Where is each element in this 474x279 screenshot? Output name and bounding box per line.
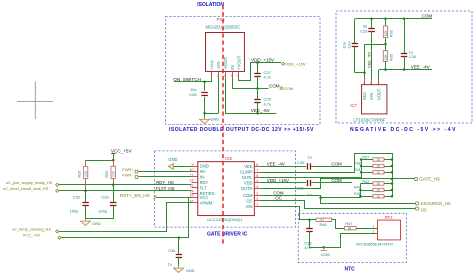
svg-text:R35: R35 (390, 54, 394, 61)
svg-text:uC_temp_sensing_HS: uC_temp_sensing_HS (12, 226, 51, 231)
ground GND under C34 (178, 257, 180, 267)
svg-text:4: 4 (256, 185, 258, 189)
svg-text:VDD: VDD (244, 181, 253, 186)
wire FWR- to IN- (139, 176, 192, 178)
svg-text:-VIN: -VIN (216, 61, 221, 69)
svg-text:R38: R38 (354, 162, 361, 166)
resistor R38 (361, 166, 373, 168)
svg-text:100p: 100p (98, 209, 108, 214)
wire temp sensing to APWM (59, 203, 192, 232)
svg-text:R46: R46 (320, 222, 327, 227)
resistor R41 (361, 172, 373, 174)
junction VDD / C27 (256, 61, 259, 64)
junction C34 on VCC wire (178, 237, 181, 240)
svg-text:VEE_-4V: VEE_-4V (267, 161, 285, 166)
svg-text:IN+: IN+ (200, 169, 207, 174)
resistor R42 (360, 183, 373, 185)
junction gate net R37 (391, 158, 394, 161)
svg-text:OC: OC (275, 196, 282, 201)
wire +VOUT to VDD rail (239, 63, 282, 81)
svg-text:C23: C23 (360, 28, 367, 33)
wire VDD to C31 (261, 182, 307, 184)
capacitor C24 (354, 19, 356, 44)
IC8 left pins (192, 166, 198, 168)
svg-text:IN-: IN- (200, 175, 206, 180)
svg-text:2k: 2k (348, 227, 352, 231)
svg-text:10: 10 (376, 189, 380, 193)
capacitor C27 (257, 63, 259, 74)
isolation boundary dashed line (222, 5, 224, 247)
wire C30 to COM label (311, 166, 352, 168)
capacitor C26 (404, 19, 406, 54)
svg-text:6: 6 (237, 74, 239, 78)
svg-text:VEE_-5V: VEE_-5V (251, 108, 271, 113)
wire -VOUT to VEE rail (226, 78, 277, 114)
junction R45 left (359, 195, 362, 198)
sheet crosshair marker (17, 82, 53, 120)
output GATE_HS (414, 177, 417, 180)
svg-text:10: 10 (376, 182, 380, 186)
junction COM flag node (322, 246, 325, 249)
capacitor C30 (307, 163, 309, 169)
svg-text:COM: COM (422, 14, 433, 19)
svg-text:C28: C28 (189, 92, 197, 97)
svg-text:APWM: APWM (200, 201, 213, 206)
junction COM / C27-C29 (256, 87, 259, 90)
wire C24 bottom to ADJ wire (355, 72, 365, 74)
capacitor C32 (85, 191, 87, 203)
svg-text:NTCS0805E3472FHT: NTCS0805E3472FHT (356, 243, 394, 247)
svg-text:VCC: VCC (200, 195, 209, 200)
svg-text:12: 12 (189, 179, 193, 183)
svg-text:R30: R30 (105, 171, 109, 178)
junction C35 top (308, 219, 311, 222)
svg-text:VDD_+15V: VDD_+15V (267, 178, 289, 183)
resistor R29 (85, 160, 87, 166)
isolated dc-dc section dashed box (166, 16, 321, 124)
capacitor C35 (309, 220, 311, 229)
svg-text:RDY: RDY (200, 180, 209, 185)
svg-text:2: 2 (217, 74, 219, 78)
junction ADJ divider (384, 43, 387, 46)
svg-text:C30: C30 (297, 160, 305, 165)
svg-text:1: 1 (363, 81, 365, 85)
capacitor C34 (178, 238, 180, 254)
dc-dc converter PS1 body (206, 33, 245, 72)
junction C24 to ADJ wire (363, 71, 366, 74)
svg-text:RST+_EN_HS: RST+_EN_HS (120, 193, 150, 198)
svg-text:COM: COM (284, 86, 293, 91)
svg-text:10: 10 (376, 165, 380, 169)
resistor R35 (383, 51, 387, 62)
svg-text:C34: C34 (168, 248, 176, 253)
resistor R46 (316, 218, 332, 221)
junction COM C26 (403, 17, 406, 20)
junction C28 top (203, 81, 206, 84)
wire GND flag to pin 9 (174, 166, 192, 168)
svg-text:R47: R47 (345, 221, 352, 226)
svg-text:GND: GND (200, 164, 209, 169)
junction gate vertical (391, 178, 394, 181)
junction COM elbow (319, 196, 322, 199)
junction OUTL R38 (360, 165, 363, 168)
svg-text:5: 5 (231, 74, 233, 78)
svg-text:VOUT: VOUT (377, 88, 382, 100)
svg-text:NTC: NTC (345, 266, 356, 272)
wire FWR+ to IN+ (139, 171, 192, 173)
junction ground node (203, 112, 206, 115)
svg-text:CLMPI: CLMPI (240, 170, 253, 175)
svg-text:VCC_+5V: VCC_+5V (111, 148, 132, 153)
svg-text:PS1: PS1 (217, 17, 226, 22)
svg-text:2: 2 (373, 230, 375, 234)
wire divider to ADJ (365, 45, 386, 79)
svg-text:4,7u: 4,7u (264, 101, 272, 106)
svg-text:7: 7 (256, 168, 258, 172)
svg-text:GND: GND (186, 268, 195, 273)
junction COM R33 (384, 17, 387, 20)
svg-text:OC: OC (421, 208, 428, 213)
svg-text:IC7: IC7 (350, 103, 357, 108)
output OC (415, 207, 418, 210)
svg-text:6: 6 (256, 174, 258, 178)
svg-text:LT1033CT#PBF: LT1033CT#PBF (354, 117, 386, 122)
wire ON_SWITCH to +VIN (174, 81, 212, 83)
svg-text:R33: R33 (390, 30, 394, 37)
GND flag at pin 9 (168, 164, 173, 170)
svg-text:3: 3 (256, 192, 258, 196)
svg-text:UCC21520QDWQ1: UCC21520QDWQ1 (207, 217, 243, 222)
wire CLMPI to gate net (261, 154, 393, 197)
svg-text:OUTL: OUTL (242, 175, 254, 180)
turn-off resistor left vertical (321, 184, 361, 198)
svg-text:VDD_+15V: VDD_+15V (251, 57, 275, 62)
svg-text:R37: R37 (362, 155, 369, 159)
svg-text:10: 10 (376, 195, 380, 199)
svg-text:C32: C32 (73, 195, 81, 200)
IC7 pins (364, 79, 366, 85)
svg-text:GATE_HS: GATE_HS (419, 177, 440, 182)
junction OUTL R41 (360, 171, 363, 174)
junction VCC R30 (112, 159, 115, 162)
svg-text:C24: C24 (346, 41, 351, 49)
svg-text:9: 9 (192, 162, 194, 166)
junction gate net R38 (391, 165, 394, 168)
COM rail top (355, 18, 432, 20)
svg-text:VEE_-5V: VEE_-5V (366, 52, 371, 68)
wire fault to FLT pin (59, 190, 192, 192)
svg-text:C33: C33 (101, 195, 109, 200)
resistor R47 (344, 227, 356, 230)
svg-text:uC_short_circuit_fault_HS: uC_short_circuit_fault_HS (3, 186, 49, 191)
capacitor C28 (204, 82, 206, 91)
svg-text:R41: R41 (354, 168, 361, 172)
svg-text:COM: COM (331, 162, 342, 167)
wire R46 to R47 (332, 220, 345, 229)
junction OUTL R37 (360, 158, 363, 161)
wire OC pin to OC output (261, 201, 416, 209)
svg-text:8: 8 (256, 163, 258, 167)
svg-text:2: 2 (256, 197, 258, 201)
svg-text:OUTH: OUTH (241, 186, 253, 191)
global label VDD_+15V (282, 62, 285, 65)
resistor R30 (113, 160, 115, 166)
svg-text:COM: COM (273, 190, 284, 195)
svg-text:VDD_+15V: VDD_+15V (286, 62, 306, 67)
junction R29 fault (84, 190, 87, 193)
ground GND logic side (81, 219, 91, 225)
svg-text:4,7k: 4,7k (84, 171, 88, 177)
svg-text:GATE DRIVER IC: GATE DRIVER IC (207, 231, 248, 237)
svg-text:100: 100 (384, 55, 388, 61)
svg-text:VEE: VEE (244, 164, 252, 169)
svg-text:-VOUT: -VOUT (223, 56, 228, 69)
wire VEE to C30 (261, 166, 307, 168)
svg-text:+VIN: +VIN (209, 60, 214, 69)
wire -VIN to ground rail (218, 78, 220, 114)
svg-text:100p: 100p (70, 209, 80, 214)
wire VOUT to rail (378, 70, 380, 79)
wire C31 to COM label (311, 182, 352, 184)
IC8 right pins (254, 166, 260, 168)
svg-text:COM: COM (243, 193, 253, 198)
gate driver section dashed box (154, 151, 295, 227)
junction R30 ready (112, 184, 115, 187)
capacitor C29 (257, 89, 259, 100)
capacitor C33 (113, 185, 115, 203)
svg-text:2: 2 (370, 81, 372, 85)
svg-text:VIN: VIN (369, 93, 374, 100)
svg-text:FLT: FLT (200, 185, 207, 190)
svg-text:KSOURCE_HS: KSOURCE_HS (421, 201, 451, 206)
svg-text:GND: GND (210, 117, 219, 122)
wire OUTH to gate output (261, 179, 415, 189)
gate driver IC8 body (198, 162, 255, 216)
svg-text:+VOUT: +VOUT (236, 55, 241, 70)
svg-text:10: 10 (376, 158, 380, 162)
junction VEE / C29 (256, 112, 259, 115)
svg-text:1u: 1u (168, 261, 172, 266)
resistor R37 (361, 159, 373, 161)
svg-text:RT2: RT2 (385, 215, 394, 220)
svg-text:GND: GND (168, 157, 177, 162)
svg-text:0V: 0V (230, 64, 235, 69)
junction gate net R44 (391, 189, 394, 192)
wire COM pin to KSOURCE output (261, 196, 416, 204)
wire ready to RDY pin (59, 184, 192, 186)
svg-text:1: 1 (373, 224, 375, 228)
svg-text:ADJ: ADJ (362, 92, 367, 100)
resistor R45 (360, 196, 373, 198)
junction R42 left (359, 189, 362, 192)
svg-text:4: 4 (224, 74, 226, 78)
junction COM C23 (370, 17, 373, 20)
svg-text:R29: R29 (77, 171, 81, 178)
wire OUTL to turn-off resistors (261, 160, 362, 178)
svg-text:4,7k: 4,7k (112, 171, 116, 177)
junction gate net R45 (391, 195, 394, 198)
regulator IC7 body (362, 85, 387, 114)
svg-text:3: 3 (378, 81, 380, 85)
wire 0V to COM rail (233, 78, 269, 89)
svg-text:1u: 1u (307, 192, 311, 197)
negative dc-dc section dashed box (336, 11, 472, 123)
junction R35 on VEE-4V rail (384, 68, 387, 71)
svg-text:1: 1 (210, 74, 212, 78)
svg-text:VEE_-4V: VEE_-4V (411, 64, 431, 69)
junction gate net R41 (391, 171, 394, 174)
svg-text:OC: OC (246, 198, 252, 203)
COM power flag NTC (321, 247, 327, 250)
svg-text:NEGATIVE DC-DC -5V >> -4V: NEGATIVE DC-DC -5V >> -4V (350, 127, 457, 133)
junction C26 on VEE-4V rail (403, 68, 406, 71)
svg-text:1: 1 (256, 203, 258, 207)
svg-text:COM: COM (269, 83, 280, 88)
VEE_-4V output rail (379, 69, 432, 71)
svg-text:C26: C26 (409, 54, 416, 59)
svg-text:COM: COM (321, 252, 330, 257)
svg-text:ISOLATED DOUBLE OUTPUT DC-DC 1: ISOLATED DOUBLE OUTPUT DC-DC 12V >> +15/… (169, 127, 314, 133)
svg-text:FWR+: FWR+ (122, 167, 134, 172)
NTC section dashed box (298, 213, 406, 262)
svg-text:IC8: IC8 (225, 156, 232, 161)
PS1 pins (211, 71, 213, 77)
svg-text:VCC_+5V: VCC_+5V (23, 233, 41, 238)
svg-text:R42: R42 (362, 180, 369, 184)
thermistor RT2 body (378, 220, 401, 240)
VCC feed wire (86, 160, 114, 162)
wire RST to RST/EN pin (158, 197, 192, 199)
svg-text:AIN: AIN (246, 204, 253, 209)
svg-text:1u: 1u (307, 155, 311, 160)
junction gate net R42 (391, 182, 394, 185)
ground GND primary (204, 113, 206, 117)
resistor R33 (385, 19, 387, 26)
capacitor C31 (307, 180, 309, 186)
wire RT2 pin 2 to COM (310, 234, 378, 248)
wire AIN to NTC divider (261, 207, 317, 220)
svg-text:10: 10 (376, 171, 380, 175)
output KSOURCE_HS (415, 202, 418, 205)
wire C33 bottom to ground (86, 218, 114, 220)
svg-text:4,7u: 4,7u (264, 75, 272, 80)
svg-text:620: 620 (384, 31, 388, 37)
svg-text:GND: GND (92, 221, 101, 226)
svg-text:FWR-: FWR- (122, 172, 133, 177)
wire R47 to RT2 pin 1 (356, 228, 377, 230)
svg-text:5: 5 (256, 179, 258, 183)
resistor R44 (360, 190, 373, 192)
global label COM (280, 87, 283, 90)
svg-text:uC_pwr_supply_ready_HS: uC_pwr_supply_ready_HS (6, 180, 53, 185)
wire VCC_+5V to VCC pin (61, 198, 190, 238)
svg-text:ISOLATION: ISOLATION (197, 2, 224, 8)
capacitor C23 (371, 19, 373, 29)
